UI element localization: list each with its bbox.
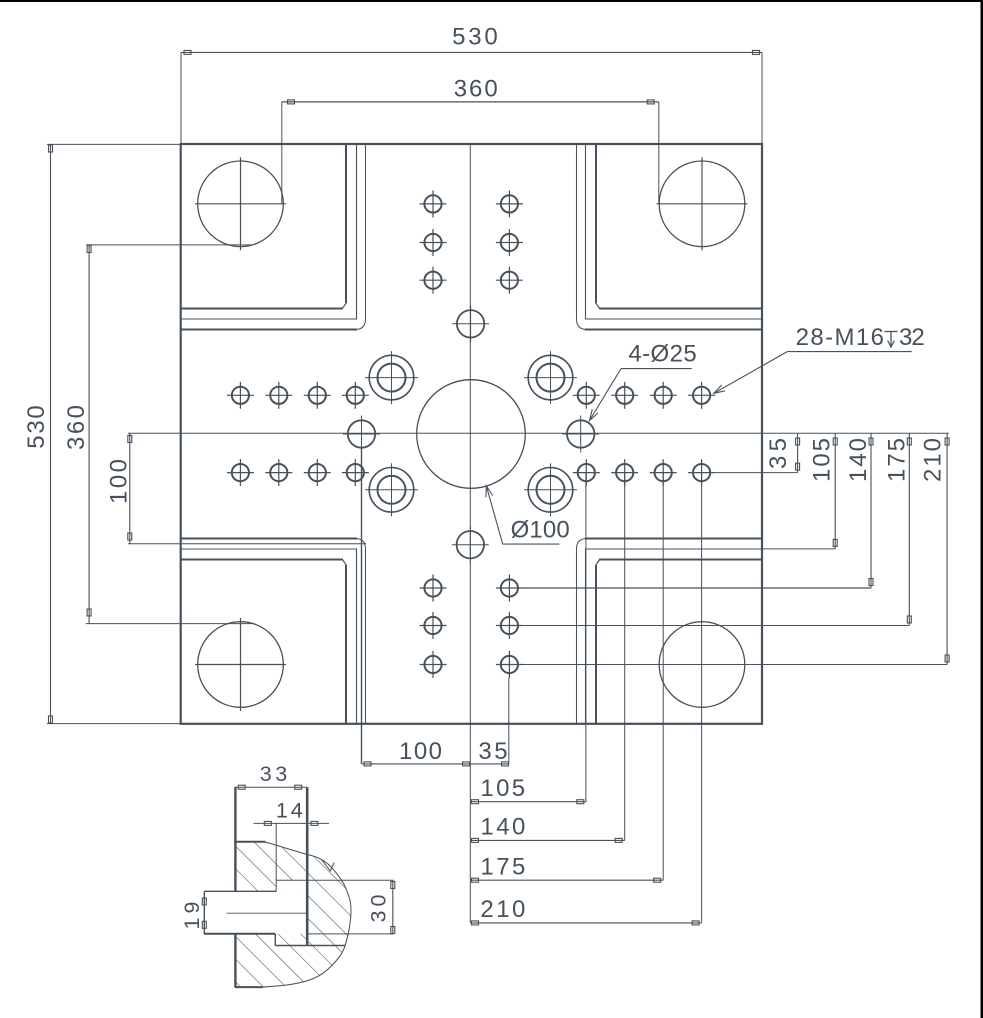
tie bar hole bottom-left (198, 622, 284, 708)
dimension 140 bottom (470, 839, 624, 841)
svg-text:33: 33 (260, 762, 287, 786)
dimension 35 right (797, 433, 799, 472)
boss cutout corner top-left (345, 144, 347, 304)
svg-text:35: 35 (765, 438, 792, 469)
dimension 360 top (282, 101, 659, 103)
counterbore hole upper-left (369, 355, 414, 400)
tie bar hole top-left (198, 161, 284, 247)
section detail outline (235, 786, 308, 788)
platen plate outline (181, 144, 762, 724)
canvas border right (981, 0, 983, 1018)
svg-text:Ø100: Ø100 (511, 517, 570, 544)
ejector hole D25 right (567, 420, 594, 447)
section detail pin bore white-out (204, 891, 307, 933)
svg-text:35: 35 (478, 738, 507, 765)
section pin and dimension 19 (204, 890, 276, 892)
svg-text:30: 30 (367, 894, 391, 922)
canvas border top (0, 0, 983, 2)
boss cutout corner top-right (595, 144, 597, 304)
dimension 105 bottom (470, 801, 586, 803)
extension lines (281, 102, 283, 204)
boss cutout corner bottom-right (595, 565, 597, 724)
svg-text:360: 360 (454, 75, 498, 102)
dimension 175 bottom (470, 879, 663, 881)
ejector hole D25 bottom (457, 531, 484, 558)
dimension 14 section (254, 822, 330, 824)
M16 tapped holes 28x (232, 387, 249, 404)
svg-text:4-Ø25: 4-Ø25 (628, 341, 696, 368)
svg-text:175: 175 (883, 438, 910, 482)
svg-text:105: 105 (809, 438, 836, 482)
svg-text:140: 140 (480, 814, 525, 841)
dimension 100 and 35 bottom (362, 763, 509, 765)
svg-text:530: 530 (23, 405, 50, 449)
tie bar hole top-right (659, 161, 745, 247)
ejector hole D25 top (457, 310, 484, 337)
svg-text:105: 105 (480, 775, 525, 802)
tie bar hole bottom-right (659, 622, 745, 708)
dimension 140 right (870, 433, 872, 588)
svg-text:32: 32 (899, 324, 925, 351)
horizontal centerline (128, 432, 949, 434)
svg-text:100: 100 (106, 459, 133, 504)
svg-text:140: 140 (845, 438, 872, 482)
svg-text:210: 210 (480, 896, 525, 923)
central hole D100 (417, 380, 526, 489)
dimension 100 left (129, 433, 131, 544)
svg-text:210: 210 (919, 438, 946, 482)
boss cutout corner bottom-left (345, 565, 347, 724)
counterbore hole lower-right (528, 468, 573, 513)
section detail hatched body (235, 842, 351, 987)
svg-text:100: 100 (399, 738, 442, 765)
ejector hole D25 left (348, 420, 375, 447)
dimension 210 right (946, 433, 948, 664)
svg-text:19: 19 (180, 902, 204, 930)
svg-text:360: 360 (63, 405, 90, 450)
dimension 175 right (908, 433, 910, 625)
dimension 530 top (181, 51, 762, 53)
counterbore hole lower-left (369, 468, 414, 513)
dimension 530 left (50, 144, 52, 723)
counterbore hole upper-right (528, 355, 573, 400)
dimension 210 bottom (470, 922, 701, 924)
section step lines (276, 879, 393, 881)
svg-text:530: 530 (452, 23, 498, 50)
dimension 105 right (834, 433, 836, 549)
svg-text:28-M16: 28-M16 (796, 324, 884, 351)
dimension 30 section (392, 880, 394, 934)
svg-text:175: 175 (480, 854, 525, 881)
svg-text:14: 14 (276, 799, 303, 823)
vertical centerline (469, 144, 471, 923)
dimension 360 left (88, 245, 90, 624)
